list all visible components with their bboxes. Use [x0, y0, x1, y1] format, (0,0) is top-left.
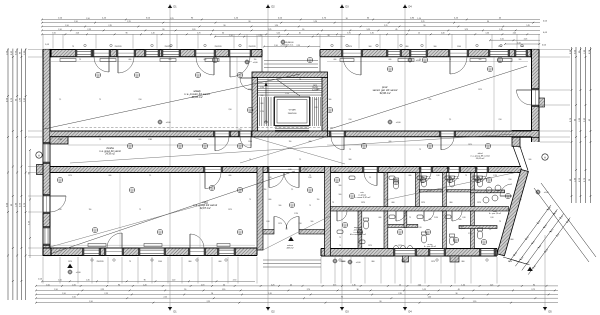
svg-text:i.r. group: i.r. group [358, 194, 367, 197]
door cubicle 2 [449, 173, 459, 183]
svg-text:5,25: 5,25 [277, 33, 280, 35]
svg-text:A: A [544, 156, 546, 160]
door bottom wall up 1 [107, 233, 122, 248]
svg-text:1: 1 [132, 189, 133, 191]
svg-text:05: 05 [179, 147, 181, 149]
svg-text:900: 900 [349, 159, 352, 161]
svg-text:1100/1400: 1100/1400 [288, 113, 297, 115]
svg-text:1,20: 1,20 [428, 297, 431, 299]
svg-text:1: 1 [430, 145, 431, 147]
svg-text:1: 1 [310, 59, 311, 61]
svg-text:1: 1 [450, 179, 451, 181]
interior reference lines [120, 57, 511, 248]
dimension chain right [570, 47, 592, 203]
svg-text:05: 05 [429, 147, 431, 149]
svg-text:1: 1 [478, 179, 479, 181]
svg-text:600: 600 [229, 175, 232, 177]
svg-text:75: 75 [332, 202, 334, 204]
svg-text:05: 05 [344, 226, 346, 228]
svg-text:1100: 1100 [457, 46, 461, 48]
svg-text:2 410: 2 410 [348, 209, 352, 211]
svg-text:700/1970: 700/1970 [214, 46, 221, 48]
svg-text:+0,00: +0,00 [396, 122, 401, 124]
svg-text:4 r. prez: 4 r. prez [453, 177, 459, 180]
svg-text:600: 600 [219, 261, 222, 263]
svg-text:1 970: 1 970 [260, 111, 264, 113]
exterior wall left corridor [43, 137, 50, 167]
wall block corridor west [50, 137, 68, 144]
svg-text:90: 90 [118, 284, 120, 286]
svg-text:1970: 1970 [468, 144, 472, 146]
dashed beam line above band A [68, 127, 335, 129]
svg-text:4,85 m2: 4,85 m2 [287, 246, 295, 249]
svg-text:1: 1 [240, 145, 241, 147]
svg-text:05: 05 [507, 197, 509, 199]
wall entrance recess right [299, 230, 325, 235]
grid bubble left [36, 152, 42, 158]
svg-text:1100: 1100 [520, 46, 524, 48]
diagonal leader lower-left room 2 [50, 203, 208, 247]
dimension chain top [41, 18, 540, 45]
svg-text:1: 1 [95, 229, 96, 231]
svg-text:2,25: 2,25 [101, 289, 104, 291]
svg-text:7,5: 7,5 [449, 119, 451, 121]
svg-text:900: 900 [339, 194, 342, 196]
svg-text:600: 600 [334, 59, 337, 61]
svg-text:75: 75 [99, 99, 101, 101]
room bubbles [57, 57, 510, 245]
svg-text:1970: 1970 [278, 223, 282, 225]
door top-right wall [343, 57, 361, 75]
exterior wall bottom-left [43, 248, 257, 256]
svg-text:1: 1 [484, 241, 485, 243]
svg-text:1,50: 1,50 [89, 301, 92, 303]
svg-text:2,70: 2,70 [233, 280, 236, 282]
svg-text:1: 1 [330, 109, 331, 111]
svg-text:1,50: 1,50 [74, 21, 77, 23]
svg-text:7,5: 7,5 [489, 229, 491, 231]
svg-text:1: 1 [490, 68, 491, 70]
svg-text:75: 75 [139, 209, 141, 211]
svg-text:600: 600 [269, 199, 272, 201]
svg-text:1,20: 1,20 [143, 284, 146, 286]
toilet fixtures [363, 176, 483, 245]
notch mini dimension line [263, 45, 320, 48]
svg-text:75: 75 [249, 159, 251, 161]
svg-text:45: 45 [290, 284, 292, 286]
label room wc3 [481, 176, 488, 180]
svg-text:4 r. prez: 4 r. prez [459, 227, 465, 230]
svg-text:1 985: 1 985 [58, 139, 62, 141]
svg-text:2,70: 2,70 [384, 25, 387, 27]
door lower-left room [205, 173, 221, 189]
stair break line [276, 79, 300, 96]
section line 545 partial [543, 235, 552, 314]
svg-text:600: 600 [315, 99, 318, 101]
diagonal cross center a [240, 135, 332, 163]
svg-text:setr: setr [360, 191, 364, 194]
svg-text:05: 05 [291, 206, 293, 208]
svg-text:05: 05 [211, 189, 213, 191]
svg-text:4/n samot 10,6 m2: 4/n samot 10,6 m2 [350, 233, 367, 236]
svg-text:90: 90 [184, 289, 186, 291]
svg-text:600: 600 [261, 103, 264, 105]
witness lines [28, 35, 570, 284]
svg-text:1,50: 1,50 [52, 33, 55, 35]
door band A right [331, 137, 344, 150]
svg-text:2,25: 2,25 [127, 21, 130, 23]
diagonal leader upper-left room [44, 74, 300, 129]
svg-text:1,20: 1,20 [28, 221, 30, 224]
svg-text:1: 1 [400, 231, 401, 233]
section line 342 [340, 4, 349, 314]
svg-text:900: 900 [279, 205, 282, 207]
label room wc4 [424, 244, 436, 248]
svg-text:1,50: 1,50 [486, 33, 489, 35]
svg-text:1,50: 1,50 [86, 18, 89, 20]
svg-text:05: 05 [455, 241, 457, 243]
svg-text:7,5: 7,5 [419, 59, 421, 61]
svg-text:7,5: 7,5 [59, 99, 61, 101]
pier outside left wall [37, 165, 44, 175]
svg-text:900: 900 [369, 46, 372, 48]
svg-text:1,50: 1,50 [65, 25, 68, 27]
svg-text:+0,00: +0,00 [544, 192, 549, 194]
label room sklad2 [470, 153, 490, 160]
svg-text:900: 900 [529, 159, 532, 161]
svg-text:1: 1 [345, 224, 346, 226]
svg-text:1: 1 [396, 181, 397, 183]
svg-text:700/1970: 700/1970 [114, 46, 121, 48]
svg-text:75: 75 [499, 221, 501, 223]
svg-text:1,20: 1,20 [172, 280, 175, 282]
svg-text:5,25: 5,25 [526, 25, 529, 27]
svg-text:600: 600 [389, 141, 392, 143]
svg-text:8,10: 8,10 [314, 107, 317, 109]
exterior pier 1 [403, 256, 409, 262]
svg-text:2,25: 2,25 [72, 284, 75, 286]
svg-text:75: 75 [389, 168, 391, 170]
svg-text:75: 75 [465, 175, 467, 177]
exterior wall top-left [43, 49, 262, 56]
svg-text:90: 90 [346, 18, 348, 20]
exterior wall right upper [531, 50, 539, 143]
svg-text:1: 1 [160, 231, 161, 233]
svg-text:05: 05 [159, 233, 161, 235]
svg-text:2,25: 2,25 [87, 29, 90, 31]
door band A corridor 2 [240, 137, 251, 148]
svg-text:05: 05 [94, 231, 96, 233]
wall lobby east [325, 167, 331, 257]
svg-text:1,20: 1,20 [268, 293, 271, 295]
svg-text:05: 05 [488, 181, 490, 183]
svg-text:600: 600 [309, 141, 312, 143]
svg-text:1,20: 1,20 [151, 33, 154, 35]
grid bubble right [542, 154, 548, 160]
svg-text:1 970: 1 970 [493, 175, 497, 177]
svg-text:1: 1 [310, 189, 311, 191]
svg-text:94,90 m2: 94,90 m2 [380, 91, 391, 95]
svg-text:30: 30 [423, 25, 425, 27]
svg-text:2 410: 2 410 [434, 217, 438, 219]
section line 268 [266, 4, 275, 314]
svg-text:90: 90 [211, 293, 213, 295]
door top-right wall 2 [450, 57, 467, 74]
svg-text:1: 1 [352, 195, 353, 197]
door cubicle 1 [421, 173, 431, 183]
svg-text:600: 600 [389, 59, 392, 61]
svg-text:600: 600 [109, 175, 112, 177]
svg-text:2,25: 2,25 [170, 18, 173, 20]
svg-text:1: 1 [137, 74, 138, 76]
svg-text:05: 05 [97, 76, 99, 78]
svg-text:75: 75 [339, 237, 341, 239]
svg-text:2,25: 2,25 [258, 35, 261, 37]
svg-text:7,5: 7,5 [149, 175, 151, 177]
partition walls sanitary block [331, 173, 509, 249]
svg-text:1: 1 [423, 179, 424, 181]
svg-text:2,25: 2,25 [76, 33, 79, 35]
svg-text:900: 900 [261, 95, 264, 97]
svg-text:1970: 1970 [446, 168, 450, 170]
door lobby double b [284, 173, 299, 188]
svg-text:8,10: 8,10 [266, 221, 269, 223]
svg-text:150: 150 [317, 199, 320, 201]
svg-text:05: 05 [487, 147, 489, 149]
svg-text:1: 1 [240, 74, 241, 76]
sill line lower-left room [50, 244, 255, 246]
svg-text:8,10: 8,10 [490, 217, 493, 219]
svg-text:1970: 1970 [421, 202, 425, 204]
svg-text:1970: 1970 [361, 202, 365, 204]
svg-text:30: 30 [222, 33, 224, 35]
door top wall double leaf a [94, 57, 109, 72]
stair treads return flight [311, 97, 321, 126]
door entrance recess b [286, 217, 299, 230]
svg-text:i.r. samot 3,10 m2: i.r. samot 3,10 m2 [354, 196, 371, 199]
svg-text:3,75: 3,75 [465, 29, 468, 31]
svg-text:1970: 1970 [348, 46, 352, 48]
svg-text:600: 600 [419, 168, 422, 170]
svg-text:75: 75 [79, 59, 81, 61]
svg-text:1100: 1100 [248, 89, 252, 91]
svg-text:3,75: 3,75 [347, 33, 350, 35]
label room wc5 [459, 226, 465, 230]
svg-text:900: 900 [519, 59, 522, 61]
svg-text:+0,00: +0,00 [166, 122, 171, 124]
svg-text:2,25: 2,25 [163, 297, 166, 299]
svg-text:VYTAH: VYTAH [289, 109, 296, 112]
label room lower-left [193, 200, 218, 210]
label room wc2 [453, 176, 459, 180]
svg-text:1: 1 [215, 59, 216, 61]
svg-text:24,35 m2: 24,35 m2 [104, 153, 115, 156]
svg-text:1 970: 1 970 [294, 213, 298, 215]
svg-text:75: 75 [72, 46, 74, 48]
label note top [280, 42, 294, 46]
svg-text:75: 75 [409, 217, 411, 219]
svg-text:1: 1 [240, 231, 241, 233]
svg-text:2,25: 2,25 [86, 280, 89, 282]
svg-text:05: 05 [136, 76, 138, 78]
svg-text:05: 05 [329, 111, 331, 113]
svg-text:1: 1 [390, 68, 391, 70]
svg-text:05: 05 [477, 181, 479, 183]
svg-text:600: 600 [349, 171, 352, 173]
entry steps outside [264, 61, 318, 68]
svg-text:45: 45 [395, 29, 397, 31]
svg-text:i.r.a. group 4/k samot: i.r.a. group 4/k samot [470, 155, 490, 158]
svg-text:900: 900 [342, 261, 345, 263]
svg-text:600: 600 [379, 217, 382, 219]
diagonal leader corridor [70, 134, 515, 163]
level marks [67, 39, 548, 274]
svg-text:900: 900 [434, 46, 437, 48]
svg-text:90: 90 [249, 21, 251, 23]
label stair [312, 84, 318, 91]
stair core bottom wall [252, 131, 328, 137]
door cubicle 3 [477, 173, 487, 183]
svg-text:05: 05 [427, 233, 429, 235]
svg-text:90: 90 [533, 284, 535, 286]
svg-text:05: 05 [336, 181, 338, 183]
elevator shaft [275, 97, 310, 126]
svg-text:1,50: 1,50 [274, 45, 277, 47]
door bottom wall up 2 [190, 234, 204, 248]
corridor floor line [68, 144, 252, 146]
svg-text:05: 05 [239, 76, 241, 78]
diagonal leader entrance [263, 216, 330, 250]
svg-text:05: 05 [131, 191, 133, 193]
svg-text:1: 1 [489, 179, 490, 181]
svg-text:90: 90 [328, 35, 330, 37]
svg-text:15: 15 [418, 33, 420, 35]
svg-text:05: 05 [197, 76, 199, 78]
stair treads side flight [260, 97, 274, 126]
svg-text:800: 800 [462, 261, 465, 263]
svg-text:30: 30 [487, 21, 489, 23]
svg-text:90: 90 [28, 172, 30, 174]
stair direction line [265, 82, 268, 123]
exterior wall left lower [43, 167, 50, 256]
dimension chain bottom [35, 280, 558, 304]
svg-text:45: 45 [458, 289, 460, 291]
label room upper-left [184, 89, 210, 99]
svg-text:4 r. prez: 4 r. prez [481, 177, 487, 180]
svg-text:34,67 m2: 34,67 m2 [200, 206, 211, 210]
svg-text:05: 05 [483, 243, 485, 245]
svg-text:700/1970: 700/1970 [96, 261, 103, 263]
svg-text:1: 1 [364, 145, 365, 147]
svg-text:2,70: 2,70 [197, 33, 200, 35]
stair notch edge west [261, 57, 263, 72]
svg-text:8,10: 8,10 [308, 177, 311, 179]
svg-text:1,50: 1,50 [72, 297, 75, 299]
svg-text:2,50: 2,50 [138, 99, 141, 101]
svg-text:1,50: 1,50 [500, 39, 503, 41]
svg-text:4 r. prez: 4 r. prez [425, 177, 431, 180]
svg-text:1: 1 [98, 74, 99, 76]
svg-text:150: 150 [254, 59, 257, 61]
stair notch edge east [319, 57, 321, 72]
svg-text:1 970: 1 970 [260, 87, 264, 89]
svg-text:1,20: 1,20 [275, 25, 278, 27]
svg-text:90: 90 [223, 25, 225, 27]
svg-text:7,5: 7,5 [369, 177, 371, 179]
opening size texts [58, 46, 531, 263]
exterior wall canted [497, 170, 528, 256]
svg-text:1: 1 [212, 187, 213, 189]
svg-text:1 970: 1 970 [285, 93, 289, 95]
svg-text:600: 600 [402, 261, 405, 263]
svg-text:05: 05 [204, 147, 206, 149]
svg-text:05: 05 [363, 147, 365, 149]
diagonal leader sanitary [385, 172, 518, 200]
svg-text:75: 75 [419, 149, 421, 151]
svg-text:600: 600 [409, 175, 412, 177]
svg-text:8,10: 8,10 [333, 171, 336, 173]
svg-text:2,50: 2,50 [58, 209, 61, 211]
entrance markers [67, 237, 533, 271]
svg-text:600: 600 [129, 59, 132, 61]
svg-text:2,70: 2,70 [421, 21, 424, 23]
door room setr [364, 173, 377, 186]
svg-text:05: 05 [59, 181, 61, 183]
svg-text:75: 75 [309, 205, 311, 207]
door lower row 3 [424, 211, 434, 221]
svg-text:1100: 1100 [474, 168, 478, 170]
section line 170 [168, 4, 177, 314]
stair treads lower flight [275, 127, 309, 132]
svg-text:1,20: 1,20 [222, 289, 225, 291]
svg-text:800: 800 [406, 46, 409, 48]
svg-text:600: 600 [199, 139, 202, 141]
svg-text:1 970: 1 970 [468, 233, 472, 235]
interior wall band B [50, 166, 521, 172]
svg-text:1,20: 1,20 [417, 18, 420, 20]
svg-text:1100: 1100 [158, 261, 162, 263]
svg-text:150: 150 [264, 189, 267, 191]
svg-text:2,70: 2,70 [307, 289, 310, 291]
stair core top wall [252, 72, 328, 78]
svg-text:5,25: 5,25 [271, 284, 274, 286]
door stair core west [240, 78, 252, 90]
svg-text:75: 75 [349, 149, 351, 151]
svg-text:150: 150 [89, 209, 92, 211]
svg-text:1: 1 [337, 179, 338, 181]
svg-text:1100: 1100 [248, 141, 252, 143]
door top wall single d [230, 57, 250, 77]
svg-text:1: 1 [488, 145, 489, 147]
entrance landing steps [263, 260, 321, 267]
exterior wall left upper [43, 50, 50, 138]
svg-text:56,95 m2: 56,95 m2 [192, 95, 203, 99]
svg-text:1,50: 1,50 [229, 35, 232, 37]
svg-text:1 985: 1 985 [148, 139, 152, 141]
svg-text:+0,00: +0,00 [356, 262, 361, 264]
svg-text:1 970: 1 970 [303, 169, 307, 171]
section line 405 [403, 4, 412, 314]
corridor floor line 2 [327, 144, 512, 146]
svg-text:5,25: 5,25 [422, 289, 425, 291]
svg-text:800: 800 [189, 261, 192, 263]
svg-text:2,50: 2,50 [228, 109, 231, 111]
label room wc1 [425, 176, 431, 180]
svg-text:05: 05 [395, 183, 397, 185]
svg-text:1: 1 [130, 145, 131, 147]
svg-text:8,10: 8,10 [462, 217, 465, 219]
svg-text:7,5: 7,5 [99, 139, 101, 141]
